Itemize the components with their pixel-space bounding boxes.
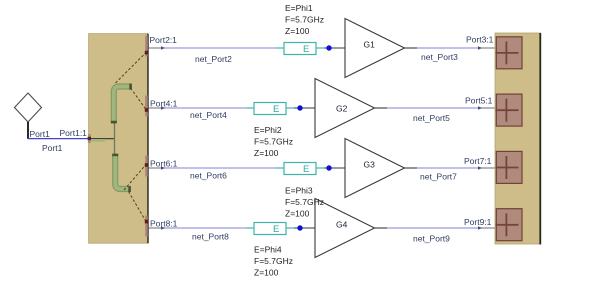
antenna patch 1 [496,37,523,69]
wire PS1 to G1 [324,47,345,49]
svg-text:F=5.7GHz: F=5.7GHz [254,137,293,147]
pin dot Port1:1 [88,137,91,140]
feed line to pin Port8:1 [129,192,147,222]
pin strip Port2:1 [145,36,148,57]
antenna patch 4 [496,209,523,241]
svg-text:Port2:1: Port2:1 [150,35,178,45]
divider upper branch trace [111,84,132,124]
svg-text:F=5.7GHz: F=5.7GHz [285,197,324,207]
svg-text:E: E [303,164,309,175]
wire Port1 to divider [28,138,89,140]
phase shifter PS1 (E) [276,43,324,56]
svg-text:net_Port3: net_Port3 [421,52,458,62]
wire PS2 to G2 [294,107,315,109]
svg-text:Port6:1: Port6:1 [150,159,178,169]
svg-text:net_Port9: net_Port9 [413,234,450,244]
feed line to pin Port4:1 [131,88,147,110]
svg-text:net_Port5: net_Port5 [413,113,450,123]
divider input trace [89,139,115,141]
feed line to pin Port2:1 [116,53,147,84]
svg-text:Z=100: Z=100 [254,148,279,158]
svg-text:Port3:1: Port3:1 [466,35,494,45]
wire net_Port9 [375,226,497,230]
wire PS3 to G3 [324,167,345,169]
wire PS4 to G4 [294,227,315,229]
svg-text:Port1: Port1 [42,143,63,153]
svg-text:E: E [273,224,279,235]
pin dot Port6:1 [145,163,149,167]
pin strip input Port1:1 [88,134,90,143]
svg-text:E=Phi3: E=Phi3 [285,186,313,196]
wire net_Port3 [405,46,497,50]
node junction dot row1 [326,45,331,50]
amplifier G3 [345,139,405,198]
svg-text:net_Port7: net_Port7 [420,172,457,182]
phase shifter PS2 (E) [246,103,294,116]
antenna patch 3 [496,151,523,183]
node junction dot row2 [297,105,302,110]
pin dot Port4:1 [145,108,149,112]
feed line to pin Port6:1 [124,165,146,191]
svg-text:Z=100: Z=100 [254,268,279,278]
svg-text:G3: G3 [364,160,376,170]
svg-text:F=5.7GHz: F=5.7GHz [254,256,293,266]
antenna array layout block [495,33,541,245]
svg-text:net_Port8: net_Port8 [192,232,229,242]
svg-text:Port5:1: Port5:1 [465,96,493,106]
svg-text:net_Port2: net_Port2 [195,54,232,64]
divider lower branch trace [112,154,131,193]
svg-text:E: E [273,104,279,115]
wire net_Port8 [149,226,247,230]
svg-text:Port1: Port1 [30,129,51,139]
svg-text:E=Phi1: E=Phi1 [285,3,313,13]
wire net_Port5 [375,106,497,110]
node junction dot row4 [297,225,302,230]
svg-text:Port1:1: Port1:1 [60,128,88,138]
amplifier G1 [345,19,405,78]
svg-text:E=Phi2: E=Phi2 [254,125,282,135]
svg-text:E=Phi4: E=Phi4 [254,245,282,255]
wire net_Port7 [405,166,497,170]
svg-text:Port9:1: Port9:1 [464,217,492,227]
svg-text:G1: G1 [364,40,376,50]
pin strip Port8:1 [145,216,148,237]
svg-text:net_Port4: net_Port4 [190,110,227,120]
svg-text:E: E [303,44,309,55]
power divider X1 layout block [89,34,148,244]
svg-text:Port8:1: Port8:1 [150,219,178,229]
wire net_Port6 [149,166,277,170]
divider trunk trace [114,122,116,156]
pin dot Port2:1 [145,51,149,55]
pin strip Port6:1 [145,156,148,177]
pin dot Port8:1 [145,220,149,224]
svg-text:G2: G2 [336,104,348,114]
phase shifter PS3 (E) [276,163,324,176]
svg-text:Z=100: Z=100 [285,26,310,36]
wire net_Port2 [149,46,277,50]
svg-text:G4: G4 [336,220,348,230]
amplifier G4 [315,199,375,258]
port P1 diamond [15,93,42,139]
svg-text:Z=100: Z=100 [285,209,310,219]
svg-text:Port4:1: Port4:1 [150,99,178,109]
wire net_Port4 [149,106,247,110]
node junction dot row3 [326,165,331,170]
pin strip Port4:1 [145,96,148,117]
svg-text:net_Port6: net_Port6 [190,171,227,181]
amplifier G2 [315,79,375,138]
phase shifter PS4 (E) [246,223,294,236]
antenna patch 2 [496,94,523,126]
svg-text:F=5.7GHz: F=5.7GHz [285,15,324,25]
svg-text:Port7:1: Port7:1 [464,156,492,166]
